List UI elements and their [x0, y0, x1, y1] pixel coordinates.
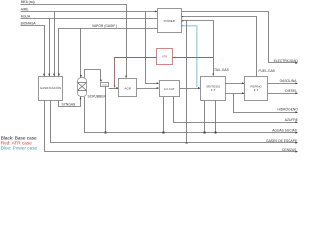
vessel SCRUBBER	[78, 78, 87, 97]
wire red ATR outlet line	[173, 57, 214, 59]
svg-text:GASIFICACIÓN: GASIFICACIÓN	[40, 85, 62, 90]
svg-text:POWER: POWER	[164, 19, 176, 23]
wire hidrogeno line	[234, 94, 298, 114]
block GASIFICACION	[39, 77, 63, 101]
wire LO-CAT sulfur to azufre	[174, 97, 298, 124]
svg-text:ATR: ATR	[162, 55, 167, 59]
svg-text:DIESEL: DIESEL	[285, 89, 297, 93]
svg-text:VAPOR (GASIF.): VAPOR (GASIF.)	[92, 24, 117, 28]
wire vapor branch into scrubber top	[80, 29, 82, 78]
svg-text:F-T: F-T	[211, 88, 216, 92]
svg-text:SYNGAS: SYNGAS	[62, 103, 77, 107]
wire AGR to LO-CAT	[137, 87, 159, 89]
wire AGUA feed line	[21, 18, 158, 20]
wire tail-gas line to power and sintesis	[181, 20, 214, 76]
svg-text:GASES DE ESCAPE: GASES DE ESCAPE	[266, 139, 298, 143]
wire vessel to AGR	[109, 87, 119, 89]
svg-text:ELECTRICIDAD: ELECTRICIDAD	[274, 59, 299, 63]
wire AGUA branch to gasifier	[48, 19, 50, 77]
block LO-CAT	[160, 81, 180, 97]
svg-text:AGUAS SUCIAS: AGUAS SUCIAS	[272, 128, 298, 132]
svg-text:TAIL-GAS: TAIL-GAS	[214, 68, 230, 72]
wire sintesis to refino upper	[226, 82, 245, 84]
block ATR	[157, 49, 173, 65]
svg-text:AIRE: AIRE	[21, 8, 29, 12]
wire vessel drain to aguas sucias	[105, 87, 107, 134]
svg-text:FUEL-GAS: FUEL-GAS	[259, 69, 276, 73]
svg-text:F-T: F-T	[254, 88, 259, 92]
block POWER	[158, 9, 182, 33]
svg-text:BIOMASA: BIOMASA	[21, 22, 37, 26]
wire gasifier drain to cenizas	[45, 101, 298, 153]
svg-text:GASOLINA: GASOLINA	[280, 79, 298, 83]
block AGR	[119, 79, 137, 97]
wire AIRE branch to LO-CAT	[146, 12, 159, 85]
svg-text:HIDRÓGENO: HIDRÓGENO	[278, 107, 299, 112]
wire gasolina line	[268, 82, 298, 84]
wire AIRE feed line	[21, 10, 158, 12]
svg-text:CENIZAS: CENIZAS	[282, 148, 297, 152]
wire VAPOR (GASIF.) line	[58, 29, 158, 77]
wire diesel line	[268, 92, 298, 94]
wire sintesis to refino lower	[226, 92, 245, 94]
svg-text:MEA (aq): MEA (aq)	[21, 0, 35, 4]
svg-text:AGUA: AGUA	[21, 14, 31, 18]
wire red ATR feed line	[114, 58, 158, 88]
svg-text:SCRUBBER: SCRUBBER	[88, 95, 107, 99]
wire scrubber overhead to vessel	[85, 70, 103, 82]
block SINTESIS F-T	[201, 77, 226, 101]
wire gasifier vent to gases de escape	[51, 101, 298, 144]
svg-text:AGR: AGR	[125, 86, 132, 90]
svg-text:Blue: Power case: Blue: Power case	[1, 145, 38, 150]
wire AIRE branch to gasifier	[53, 12, 55, 77]
wire sintesis water drain 1	[204, 101, 206, 134]
svg-text:LT-GC: LT-GC	[102, 85, 108, 87]
wire BIOMASA feed line	[21, 26, 46, 77]
wire power to electricidad	[181, 12, 298, 65]
wire MEA feed line	[21, 5, 128, 78]
wire power exhaust branch to gases de escape	[186, 21, 188, 144]
wire SYNGAS gasifier to scrubber	[59, 97, 82, 107]
wire LO-CAT to sintesis	[180, 87, 201, 89]
vessel gas conditioning unit	[101, 83, 109, 87]
wire scrubber drain / AGUAS SUCIAS line	[85, 97, 298, 134]
wire power case cyan line	[181, 25, 197, 88]
svg-text:LO-CAT: LO-CAT	[164, 87, 175, 91]
svg-text:AZUFRE: AZUFRE	[285, 118, 299, 122]
wire sintesis water drain 2	[215, 101, 217, 134]
block REFINO F-T	[245, 77, 268, 101]
wire LO-CAT drain to aguas sucias	[163, 97, 165, 134]
wire fuel-gas refino to power	[181, 16, 256, 77]
